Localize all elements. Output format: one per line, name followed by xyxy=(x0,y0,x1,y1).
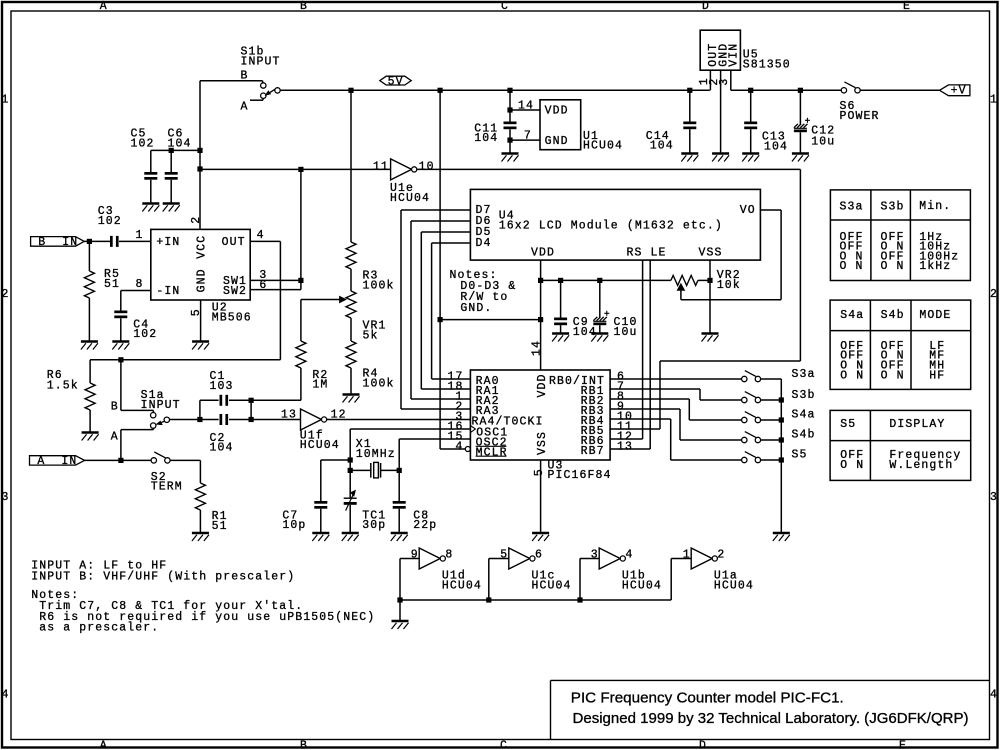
inverter U1e HCU04 xyxy=(391,159,412,180)
svg-text:1: 1 xyxy=(1,94,9,107)
wire spare inverter input rail xyxy=(400,599,671,601)
svg-text:MODE: MODE xyxy=(919,309,951,322)
svg-text:HCU04: HCU04 xyxy=(583,139,623,152)
wire U5 pin3 VIN stub xyxy=(730,70,732,90)
wire U1 pin14 VDD xyxy=(510,109,540,111)
wire S1a B contact xyxy=(120,360,122,411)
svg-text:4: 4 xyxy=(1,689,9,702)
wire RB5 long route xyxy=(660,360,800,362)
svg-text:102: 102 xyxy=(131,138,155,151)
svg-text:Min.: Min. xyxy=(919,200,951,213)
svg-text:E: E xyxy=(899,739,907,750)
capacitor C2 104 series xyxy=(200,419,219,421)
capacitor C12 10u electrolytic xyxy=(799,90,801,124)
svg-text:D: D xyxy=(702,0,710,13)
switch S2 TERM xyxy=(151,458,156,463)
wire PIC RB3 to S4b xyxy=(610,408,680,410)
capacitor C7 10p xyxy=(321,459,350,461)
svg-text:O N: O N xyxy=(840,260,864,273)
capacitor C3 102 series xyxy=(110,236,113,247)
wire S1b common to 5V rail xyxy=(280,89,351,91)
svg-text:102: 102 xyxy=(98,215,122,228)
svg-text:GND: GND xyxy=(545,135,569,148)
svg-text:TERM: TERM xyxy=(151,481,183,494)
table S5 DISPLAY xyxy=(830,410,971,480)
svg-text:100k: 100k xyxy=(363,377,395,390)
svg-text:8: 8 xyxy=(136,278,144,291)
svg-text:A: A xyxy=(100,739,108,750)
svg-text:O N: O N xyxy=(881,260,905,273)
prescaler U2 MB506 xyxy=(151,229,250,300)
svg-text:4: 4 xyxy=(257,229,265,242)
svg-text:SW2: SW2 xyxy=(223,285,247,298)
switch S4b xyxy=(742,437,747,442)
wire U1 pin7 GND xyxy=(510,139,540,141)
svg-text:HCU04: HCU04 xyxy=(300,439,340,452)
svg-text:Designed 1999 by 32 Technical: Designed 1999 by 32 Technical Laboratory… xyxy=(573,710,969,727)
svg-text:B IN: B IN xyxy=(38,236,78,249)
svg-text:2: 2 xyxy=(717,549,725,562)
wire LCD D7 bus xyxy=(401,209,470,211)
svg-text:HCU04: HCU04 xyxy=(390,192,430,205)
capacitor C13 104 xyxy=(750,90,752,121)
svg-text:13: 13 xyxy=(281,408,297,421)
switch S3b xyxy=(742,397,747,402)
svg-text:INPUT B: VHF/UHF (With prescal: INPUT B: VHF/UHF (With prescaler) xyxy=(31,570,295,583)
svg-text:2: 2 xyxy=(990,288,998,301)
wire U5 pin2 GND stub xyxy=(720,70,722,153)
svg-text:1: 1 xyxy=(990,94,998,107)
svg-text:5V: 5V xyxy=(388,75,404,88)
wire S1b A contact stub xyxy=(250,99,263,101)
svg-text:30p: 30p xyxy=(362,519,386,532)
svg-text:103: 103 xyxy=(210,380,234,393)
svg-text:51: 51 xyxy=(104,278,120,291)
capacitor C6 104 xyxy=(170,150,172,172)
capacitor C9 104 xyxy=(560,280,562,317)
svg-text:VO: VO xyxy=(740,204,756,217)
wire VDD decoupling rail xyxy=(541,279,671,281)
svg-text:B: B xyxy=(300,739,308,750)
svg-text:S81350: S81350 xyxy=(743,59,791,72)
svg-text:5: 5 xyxy=(533,468,546,476)
svg-text:6: 6 xyxy=(259,279,267,292)
svg-text:104: 104 xyxy=(764,140,788,153)
wire U2 pin8 -IN xyxy=(121,290,151,292)
svg-text:104: 104 xyxy=(168,138,192,151)
svg-text:DISPLAY: DISPLAY xyxy=(889,418,945,431)
wire LCD VSS to ground xyxy=(709,260,711,333)
wire LCD VO to VR2 wiper xyxy=(760,209,781,211)
svg-text:MCLR: MCLR xyxy=(476,446,508,459)
svg-text:VCC: VCC xyxy=(196,235,209,259)
wire PIC RA1 xyxy=(421,388,470,390)
svg-text:5: 5 xyxy=(500,549,508,562)
svg-text:A: A xyxy=(111,431,119,444)
svg-text:O N: O N xyxy=(881,369,905,382)
svg-text:C: C xyxy=(501,0,509,13)
svg-text:HCU04: HCU04 xyxy=(622,580,662,593)
svg-text:2: 2 xyxy=(190,216,203,224)
svg-text:VDD: VDD xyxy=(531,247,555,260)
connector flag A IN xyxy=(30,456,85,465)
svg-text:A: A xyxy=(100,0,108,13)
svg-text:51: 51 xyxy=(212,520,228,533)
wire SW node to U1e input line xyxy=(300,169,302,289)
microcontroller U3 PIC16F84 xyxy=(470,370,610,460)
potentiometer VR1 5k xyxy=(350,269,352,291)
wire B IN to C3 xyxy=(84,240,110,242)
svg-text:5k: 5k xyxy=(363,329,379,342)
switch S3a xyxy=(742,376,747,381)
svg-text:1kHz: 1kHz xyxy=(919,260,951,273)
svg-text:S4b: S4b xyxy=(792,428,816,441)
wire U1e output to x800 xyxy=(417,168,801,170)
wire VR1 wiper xyxy=(301,299,340,301)
resistor R3 100k xyxy=(350,90,352,242)
regulator U5 S81350 xyxy=(700,30,740,70)
capacitor C5 102 xyxy=(150,150,152,172)
svg-text:HCU04: HCU04 xyxy=(532,580,572,593)
resistor R4 100k xyxy=(350,318,352,341)
svg-text:4: 4 xyxy=(625,549,633,562)
wire A IN to S1a and S2 xyxy=(85,459,151,461)
svg-text:B: B xyxy=(111,401,119,414)
power flag +V xyxy=(940,85,970,96)
svg-text:1: 1 xyxy=(683,549,691,562)
wire U2 SW2 pin6 xyxy=(250,289,301,291)
wire OSC2 to crystal xyxy=(399,438,470,440)
svg-text:S3a: S3a xyxy=(792,368,816,381)
wire LCD RS line xyxy=(642,260,644,439)
wire U1e input line xyxy=(200,168,391,170)
wire PIC RB5 to +V route xyxy=(610,428,660,430)
capacitor C10 10u electrolytic xyxy=(599,280,601,317)
resistor R6 1.5k xyxy=(89,360,91,383)
wire VDD link to 5V rail xyxy=(440,319,540,321)
svg-text:A: A xyxy=(241,101,249,114)
title block xyxy=(551,679,990,681)
switch S4a xyxy=(742,417,747,422)
capacitor C4 102 xyxy=(120,291,122,311)
wire 5V power rail xyxy=(280,89,710,91)
svg-text:INPUT: INPUT xyxy=(241,55,281,68)
svg-text:16x2 LCD Module (M1632 etc.): 16x2 LCD Module (M1632 etc.) xyxy=(499,219,723,232)
svg-text:A IN: A IN xyxy=(37,455,77,468)
wire LCD D6 bus xyxy=(411,220,470,222)
resistor R1 51 xyxy=(195,483,205,510)
svg-text:O N: O N xyxy=(840,459,864,472)
svg-text:104: 104 xyxy=(650,139,674,152)
svg-text:102: 102 xyxy=(133,328,157,341)
wire OSC1 to crystal xyxy=(350,428,470,430)
capacitor C1 103 series xyxy=(199,400,201,419)
svg-text:VSS: VSS xyxy=(699,247,723,260)
svg-text:2: 2 xyxy=(1,288,9,301)
svg-text:HF: HF xyxy=(929,369,945,382)
wire U2 GND pin5 xyxy=(200,300,202,341)
svg-text:1M: 1M xyxy=(312,379,328,392)
svg-text:VDD: VDD xyxy=(536,373,549,397)
svg-text:GND.: GND. xyxy=(460,302,492,315)
power flag 5V xyxy=(380,76,411,85)
switch S5 xyxy=(742,457,747,462)
svg-text:S5: S5 xyxy=(792,448,808,461)
svg-text:8: 8 xyxy=(445,549,453,562)
wire S1a A contact xyxy=(120,430,122,461)
resistor R5 51 xyxy=(88,241,90,271)
wire LCD VDD pin line xyxy=(540,260,542,370)
wire U1f output to RA4 xyxy=(327,419,471,421)
table S4a S4b MODE xyxy=(830,300,971,389)
wire C3 to U2 pin1 xyxy=(119,240,151,242)
svg-text:10: 10 xyxy=(419,160,435,173)
wire prescaler output to S1a xyxy=(90,359,280,361)
table S3a S3b Min xyxy=(830,190,970,281)
wire S1b B contact xyxy=(200,80,263,82)
svg-text:22p: 22p xyxy=(413,519,437,532)
switch S6 POWER xyxy=(841,88,846,93)
inverter U1f HCU04 xyxy=(251,419,300,421)
svg-text:S4a: S4a xyxy=(792,408,816,421)
potentiometer VR2 10k xyxy=(671,275,698,285)
wire U5 pin1 OUT stub xyxy=(709,70,711,90)
svg-text:S4b: S4b xyxy=(881,309,905,322)
svg-text:PIC16F84: PIC16F84 xyxy=(548,469,612,482)
wire PIC RB6 to LCD RS xyxy=(610,438,643,440)
svg-text:14: 14 xyxy=(530,340,543,356)
svg-text:HCU04: HCU04 xyxy=(442,580,482,593)
wire PIC RB7 to LCD LE xyxy=(610,448,650,450)
svg-text:10p: 10p xyxy=(282,519,306,532)
svg-text:3: 3 xyxy=(718,78,731,86)
switch S1a common pole xyxy=(164,417,169,422)
svg-text:9: 9 xyxy=(411,549,419,562)
svg-text:D4: D4 xyxy=(476,237,492,250)
svg-text:4: 4 xyxy=(455,441,463,454)
wire PIC VSS pin5 ground xyxy=(540,460,542,533)
svg-text:POWER: POWER xyxy=(840,110,880,123)
svg-text:7: 7 xyxy=(524,129,532,142)
svg-text:S3a: S3a xyxy=(840,200,864,213)
svg-text:3: 3 xyxy=(591,549,599,562)
wire LCD D4 bus xyxy=(432,242,471,244)
wire C5 C6 top xyxy=(151,149,200,151)
svg-text:MB506: MB506 xyxy=(212,312,252,325)
svg-text:as a prescaler.: as a prescaler. xyxy=(39,622,159,635)
svg-text:S4a: S4a xyxy=(840,309,864,322)
svg-text:OUT: OUT xyxy=(222,236,246,249)
svg-text:VIN: VIN xyxy=(728,43,741,67)
svg-text:C: C xyxy=(500,739,508,750)
node 5V rail junctions xyxy=(348,88,353,93)
svg-text:E: E xyxy=(903,0,911,13)
wire PIC RA2 xyxy=(411,398,470,400)
capacitor C8 22p xyxy=(398,470,400,501)
svg-text:6: 6 xyxy=(535,549,543,562)
wire PIC RB1 to S3b xyxy=(610,388,700,390)
connector flag B IN xyxy=(31,237,85,247)
inverter U1b HCU04 xyxy=(579,559,581,601)
svg-text:+V: +V xyxy=(951,84,967,97)
wire U2 OUT pin4 xyxy=(250,240,280,242)
wire PIC RA3 xyxy=(401,408,470,410)
svg-text:3: 3 xyxy=(990,491,998,504)
svg-text:W.Length: W.Length xyxy=(889,459,953,472)
ground U5 GND xyxy=(712,152,729,155)
svg-text:RB7: RB7 xyxy=(581,445,605,458)
svg-text:-IN: -IN xyxy=(156,285,180,298)
switch S1b common pole xyxy=(275,88,280,93)
inverter U1d HCU04 xyxy=(399,559,401,601)
svg-text:3: 3 xyxy=(1,491,9,504)
inverter U1a HCU04 xyxy=(670,559,672,601)
wire prescaler power rail x200 xyxy=(199,81,201,230)
capacitor C11 104 xyxy=(509,90,511,121)
trimmer capacitor TC1 30p xyxy=(349,470,351,498)
svg-text:B: B xyxy=(300,0,308,13)
svg-text:104: 104 xyxy=(474,132,498,145)
U1 power pins box xyxy=(540,100,581,150)
LCD module U4 16x2 xyxy=(470,189,760,260)
svg-text:4: 4 xyxy=(990,689,998,702)
inverter U1c HCU04 xyxy=(488,559,490,601)
svg-text:104: 104 xyxy=(210,442,234,455)
svg-text:HCU04: HCU04 xyxy=(714,580,754,593)
wire LCD LE line xyxy=(649,260,651,449)
svg-text:11: 11 xyxy=(373,160,389,173)
resistor R2 1M xyxy=(300,300,302,342)
svg-text:10u: 10u xyxy=(614,326,638,339)
wire 5V rail to MCLR x440 xyxy=(439,90,441,449)
svg-text:5: 5 xyxy=(190,308,203,316)
svg-text:S3b: S3b xyxy=(792,389,816,402)
capacitor C14 104 xyxy=(689,90,691,121)
crystal X1 10MHz xyxy=(350,469,371,471)
svg-text:100k: 100k xyxy=(363,279,395,292)
svg-text:14: 14 xyxy=(518,99,534,112)
svg-text:13: 13 xyxy=(617,441,633,454)
svg-text:PIC Frequency Counter model PI: PIC Frequency Counter model PIC-FC1. xyxy=(571,690,844,707)
wire LCD D5 bus xyxy=(421,231,470,233)
wire PIC RA0 xyxy=(432,378,471,380)
svg-text:GND: GND xyxy=(196,268,209,292)
svg-text:1.5k: 1.5k xyxy=(47,379,79,392)
wire PIC RB4 to S5 xyxy=(610,418,671,420)
svg-text:+IN: +IN xyxy=(156,236,180,249)
svg-text:10u: 10u xyxy=(811,136,835,149)
svg-text:10MHz: 10MHz xyxy=(356,448,396,461)
wire S2 to R1 xyxy=(170,459,200,461)
svg-text:10k: 10k xyxy=(717,279,741,292)
wire switch common rail to ground xyxy=(780,379,782,533)
wire PIC RB0 to S3a xyxy=(610,378,742,380)
svg-text:S3b: S3b xyxy=(881,200,905,213)
svg-text:S5: S5 xyxy=(840,418,856,431)
svg-text:1: 1 xyxy=(136,229,144,242)
wire PIC RB2 to S4a xyxy=(610,398,689,400)
svg-text:D: D xyxy=(699,739,707,750)
svg-text:O N: O N xyxy=(840,369,864,382)
ground spare inverter rail xyxy=(399,600,401,621)
svg-text:VDD: VDD xyxy=(545,105,569,118)
wire S1a common to C1 C2 xyxy=(170,419,200,421)
svg-text:VSS: VSS xyxy=(536,431,549,455)
svg-text:RS LE: RS LE xyxy=(627,247,667,260)
wire U2 SW1 pin3 xyxy=(250,279,301,281)
